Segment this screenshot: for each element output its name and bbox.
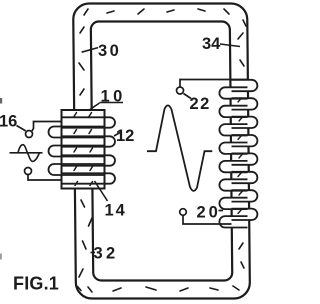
svg-text:20: 20 <box>197 204 221 222</box>
svg-text:22: 22 <box>190 95 211 113</box>
svg-text:16: 16 <box>0 113 17 131</box>
svg-text:FIG.1: FIG.1 <box>13 274 59 294</box>
svg-text:12: 12 <box>116 127 134 145</box>
svg-text:10: 10 <box>101 88 126 106</box>
svg-text:14: 14 <box>105 202 127 220</box>
svg-text:32: 32 <box>94 245 119 263</box>
svg-text:34: 34 <box>202 35 221 53</box>
svg-text:30: 30 <box>98 42 121 60</box>
